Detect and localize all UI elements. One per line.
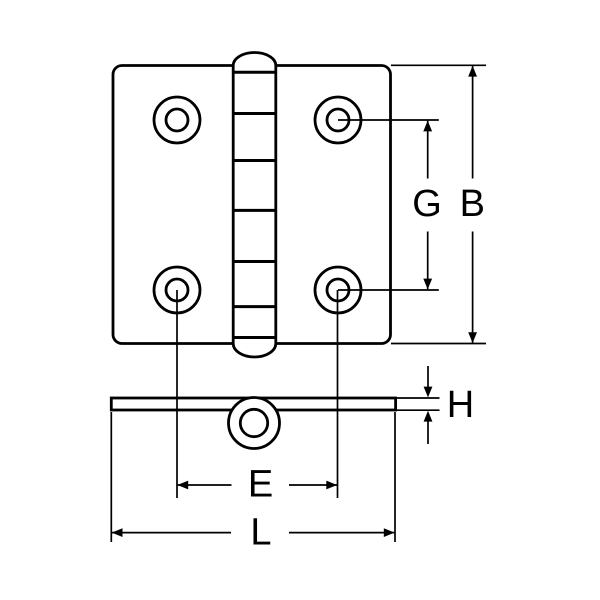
side view barrel outer circle: [229, 398, 280, 449]
dimension line L left segment: [112, 532, 231, 534]
hinge barrel capsule (front view): [233, 53, 276, 358]
dimension line E right segment: [289, 484, 337, 486]
arrowhead H down (upper): [424, 387, 433, 398]
screw hole bottom-left: [154, 267, 200, 313]
extension line G bottom: [338, 289, 439, 291]
extension line B top: [391, 64, 486, 66]
arrowhead E left: [177, 481, 188, 490]
dimension line B upper segment: [472, 66, 474, 179]
extension line H bottom: [397, 409, 440, 411]
barrel knuckle divider lines: [233, 72, 276, 337]
extension line L left: [110, 412, 112, 542]
arrowhead H up (lower): [424, 411, 433, 422]
svg-text:L: L: [250, 512, 271, 554]
extension line B bottom: [391, 343, 486, 345]
dimension line G upper segment: [427, 121, 429, 179]
screw hole top-right: [315, 97, 361, 143]
svg-text:G: G: [412, 183, 442, 225]
dimension line E left segment: [178, 484, 232, 486]
screw hole bottom-right: [315, 267, 361, 313]
arrowhead B down: [468, 332, 477, 343]
extension line L right: [394, 412, 396, 542]
H lower arrow stem: [427, 421, 429, 445]
extension line E right: [337, 290, 339, 498]
side view leaf bar: [111, 398, 395, 410]
extension line G top: [338, 119, 439, 121]
extension line E left: [176, 290, 178, 498]
svg-text:H: H: [447, 384, 474, 426]
arrowhead B up: [468, 66, 477, 77]
thin dimension / extension lines: [111, 65, 486, 542]
arrowhead L left: [112, 528, 123, 537]
arrowhead G up: [423, 121, 432, 132]
H upper arrow stem: [427, 366, 429, 388]
svg-text:E: E: [248, 464, 273, 506]
svg-text:B: B: [460, 183, 485, 225]
screw hole top-left: [154, 97, 200, 143]
dimension line B lower segment: [472, 232, 474, 344]
hinge leaf plate (front view): [113, 66, 391, 344]
arrowhead E right: [326, 481, 337, 490]
arrowheads: [112, 66, 477, 537]
dimension line G lower segment: [427, 232, 429, 290]
extension line H top: [397, 397, 440, 399]
dimension line L right segment: [289, 532, 395, 534]
side view pin inner circle: [240, 409, 267, 436]
arrowhead L right: [384, 528, 395, 537]
arrowhead G down: [423, 279, 432, 290]
